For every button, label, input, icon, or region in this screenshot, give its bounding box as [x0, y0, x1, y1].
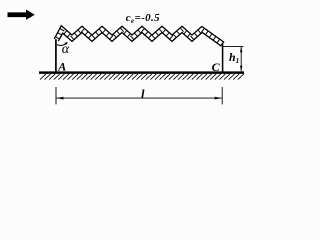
- svg-text:ce=-0.5: ce=-0.5: [126, 12, 160, 25]
- h1 arrow down: [240, 66, 242, 72]
- h1 arrow up: [240, 47, 242, 53]
- wind arrow: [8, 10, 35, 20]
- ground hatching: [40, 74, 244, 80]
- h1 dimension line: [240, 47, 242, 71]
- svg-text:A: A: [57, 59, 66, 73]
- svg-text:α: α: [62, 42, 70, 57]
- l dimension line: [56, 97, 221, 99]
- l arrow left: [57, 97, 64, 100]
- angle arc: [57, 43, 67, 46]
- l arrow right: [215, 97, 222, 100]
- angle arc arrowhead: [64, 42, 67, 45]
- svg-text:h1: h1: [229, 50, 239, 65]
- l extension line right: [221, 87, 223, 104]
- h1 top tick: [223, 45, 243, 47]
- ground: [39, 71, 244, 74]
- sawtooth roof band rungs: [55, 28, 224, 47]
- l extension line left: [55, 87, 57, 104]
- sawtooth roof band inner: [56, 29, 223, 44]
- right wall: [222, 44, 224, 72]
- left wall: [55, 39, 57, 71]
- svg-text:l: l: [141, 87, 145, 101]
- sawtooth roof band outer: [56, 29, 223, 44]
